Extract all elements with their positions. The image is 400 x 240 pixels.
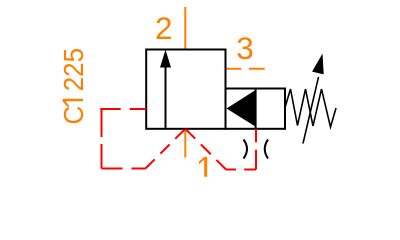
port 1 line — [184, 129, 186, 158]
label C1225 — [58, 48, 89, 125]
spring — [285, 89, 336, 127]
pilot line left bottom — [102, 168, 146, 170]
orifice right arc — [265, 140, 268, 159]
pilot line right vertical — [255, 129, 257, 170]
pilot line right bottom — [226, 169, 257, 171]
svg-text:225: 225 — [58, 48, 89, 91]
port label 1 — [199, 157, 207, 177]
svg-text:2: 2 — [155, 10, 173, 46]
svg-text:3: 3 — [236, 30, 254, 66]
adjustment arrow shaft — [303, 77, 319, 144]
pilot line left vertical — [101, 109, 103, 169]
adjustment arrow head — [312, 54, 324, 75]
flow arrow shaft — [165, 66, 167, 128]
pilot line left top — [100, 108, 146, 110]
flow arrow head — [160, 50, 171, 68]
solenoid box — [226, 89, 286, 129]
pilot diagonal left — [146, 129, 186, 169]
svg-text:C: C — [58, 106, 89, 125]
solenoid triangle — [227, 90, 256, 127]
port 3 dashed line — [226, 68, 265, 70]
pilot diagonal right — [185, 129, 226, 170]
orifice left arc — [244, 140, 248, 159]
valve body envelope — [146, 50, 225, 129]
solenoid divider line — [255, 89, 257, 128]
port 2 line — [184, 7, 186, 49]
